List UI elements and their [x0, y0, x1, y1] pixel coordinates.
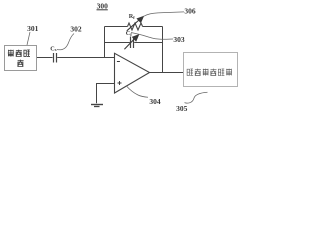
- svg-text:Cs: Cs: [50, 45, 56, 52]
- svg-text:301: 301: [27, 24, 39, 33]
- svg-text:304: 304: [149, 97, 161, 106]
- svg-text:302: 302: [70, 25, 82, 34]
- svg-text:303: 303: [173, 35, 185, 44]
- svg-text:Rf: Rf: [129, 13, 135, 20]
- svg-text:305: 305: [176, 104, 188, 113]
- svg-text:306: 306: [184, 7, 196, 16]
- svg-text:Cf: Cf: [126, 30, 132, 37]
